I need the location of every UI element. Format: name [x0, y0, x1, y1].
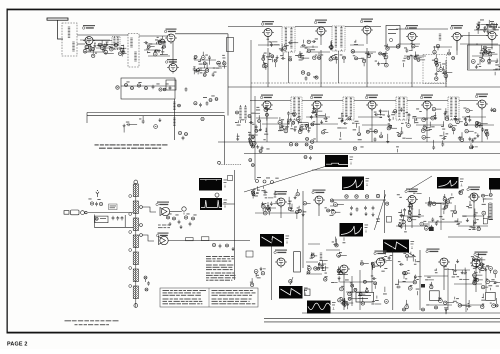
wire [354, 100, 396, 102]
tube V 2ND VIDEO IF 6CB6 [315, 27, 327, 37]
value label [415, 119, 417, 122]
resistor [492, 304, 496, 308]
resistor [486, 133, 489, 136]
wire [444, 194, 446, 197]
value label [432, 59, 435, 62]
value label [331, 208, 334, 211]
resistor [475, 278, 478, 281]
wire [409, 50, 413, 52]
resistor [254, 270, 258, 274]
IF transformer T4 [291, 97, 302, 120]
wire [477, 29, 479, 34]
value label [119, 47, 122, 50]
capacitor [492, 28, 496, 31]
capacitor [280, 49, 284, 52]
wire [444, 199, 446, 205]
value label [414, 58, 417, 61]
value label [430, 283, 433, 286]
value label [299, 121, 302, 124]
value label [375, 299, 379, 302]
wire [382, 53, 388, 55]
resistor [405, 305, 409, 309]
bus line upper [87, 112, 225, 114]
capacitor [105, 43, 108, 47]
wire [470, 110, 473, 112]
value label [391, 113, 395, 116]
wire [223, 203, 235, 205]
wire [407, 100, 448, 102]
value label [353, 128, 357, 131]
value label [479, 65, 481, 68]
capacitor [427, 204, 431, 207]
wire [481, 259, 485, 261]
wire [376, 265, 379, 267]
value label [397, 131, 399, 134]
resistor [493, 109, 496, 112]
wire [403, 63, 405, 67]
wire [204, 65, 206, 68]
wire [163, 41, 165, 45]
value label [330, 55, 332, 58]
value label [419, 110, 421, 113]
value label [279, 47, 283, 50]
value label [254, 195, 258, 198]
wire [358, 126, 360, 132]
coil [130, 38, 132, 47]
waveform scope W2 sync pulse [200, 198, 222, 210]
resistor [474, 278, 477, 281]
sound takeoff line [173, 99, 175, 140]
wire [385, 252, 387, 255]
resistor [205, 69, 208, 72]
value label [308, 127, 311, 130]
wire [175, 33, 228, 35]
wire [362, 297, 364, 301]
value label [461, 189, 464, 192]
wire [387, 134, 389, 140]
bus line y142 [218, 141, 500, 143]
value label [442, 203, 445, 206]
value label [288, 200, 291, 203]
resistor [159, 88, 162, 91]
wire vertical x234 [234, 170, 236, 280]
wire [143, 235, 155, 241]
wire [472, 229, 476, 231]
capacitor [324, 117, 328, 120]
notes table [160, 288, 258, 307]
IF transformer T5 [343, 97, 354, 120]
wire [482, 294, 484, 299]
resistor [448, 52, 451, 55]
resistor [226, 244, 229, 247]
value label [235, 121, 238, 124]
wire [299, 51, 301, 54]
ground [123, 124, 126, 128]
wire [487, 24, 489, 30]
value label [443, 69, 445, 72]
scope W8 vert saw annotation [286, 236, 290, 244]
wire [302, 122, 308, 124]
wire [77, 34, 128, 36]
value label [269, 52, 271, 55]
wire [268, 212, 270, 215]
scope W3 composite annotation [350, 157, 354, 165]
label SYNC PHASE INV [312, 190, 326, 194]
value label [446, 115, 449, 118]
value label [88, 198, 91, 201]
value label [345, 300, 348, 303]
wire [198, 70, 205, 72]
resistor [472, 258, 475, 261]
wire [255, 112, 260, 114]
value label [444, 306, 448, 309]
resistor [201, 56, 205, 60]
resistor [417, 58, 420, 61]
wire [162, 50, 164, 54]
value label [388, 122, 390, 125]
label VIDEO OUT 6AH6 [475, 94, 488, 98]
resistor [280, 127, 283, 130]
tube V2 mixer [165, 34, 177, 44]
resistor [343, 56, 346, 59]
value label [470, 226, 473, 229]
value label [450, 196, 454, 199]
cathode drop wire [366, 34, 368, 44]
value label [165, 83, 168, 86]
volume control [182, 207, 186, 215]
value label [265, 130, 267, 133]
wire [417, 57, 421, 59]
wire [121, 52, 123, 57]
wire [194, 60, 222, 68]
wire [310, 252, 312, 256]
wire [323, 260, 327, 262]
value label [193, 214, 196, 217]
wire [445, 200, 447, 205]
value label [376, 220, 379, 223]
wire [385, 59, 387, 63]
resistor [389, 125, 392, 128]
wire [472, 30, 498, 56]
wire [286, 119, 288, 125]
cathode drop wire [266, 109, 268, 142]
wire [355, 40, 357, 43]
label AUDIO AMP 6AV6 [156, 233, 168, 237]
value label [498, 26, 500, 29]
value label [499, 65, 500, 68]
wire [412, 216, 419, 218]
resistor [472, 195, 475, 198]
value label [481, 299, 485, 302]
value label [463, 107, 466, 110]
value label [299, 52, 302, 55]
resistor [403, 272, 406, 275]
terminal H [256, 180, 259, 183]
value label [175, 214, 178, 217]
value label [454, 273, 457, 276]
value label [205, 54, 208, 57]
resistor [372, 265, 375, 268]
resistor [119, 52, 122, 55]
wire [351, 288, 353, 292]
wire [296, 214, 298, 219]
value label [403, 252, 406, 255]
wire [406, 258, 408, 261]
value label [361, 57, 364, 60]
resistor [396, 45, 399, 48]
value label [462, 188, 464, 191]
ant input label box [109, 204, 117, 210]
capacitor [343, 122, 347, 125]
wire [496, 298, 498, 304]
waveform scope W10 vert ramp [279, 286, 303, 299]
value label [106, 41, 109, 44]
wire [372, 266, 374, 270]
wire [298, 206, 300, 209]
wire [271, 58, 273, 62]
wire [392, 117, 394, 120]
pointer diagonal to W7 [374, 194, 385, 230]
value label [392, 111, 395, 114]
resistor [305, 124, 308, 127]
AGC dashed enclosure [423, 55, 447, 84]
label 3RD VID IF 6CB6b [365, 95, 378, 99]
deflection yoke box [486, 292, 496, 300]
resistor [203, 73, 206, 76]
wire [496, 23, 498, 28]
wire [490, 270, 492, 273]
wire [86, 113, 88, 124]
cathode drop wire [456, 41, 458, 51]
label VERT SWEEP 6CM7 [374, 251, 387, 255]
resistor [460, 138, 463, 141]
resistor [153, 52, 157, 56]
capacitor [169, 86, 172, 90]
value label [407, 269, 409, 272]
ground [286, 125, 289, 129]
resistor [322, 131, 325, 134]
resistor [465, 130, 468, 133]
wire [401, 209, 403, 213]
resistor [337, 253, 341, 257]
label SYNC SEP [274, 191, 287, 195]
resistor [158, 40, 161, 43]
value label [312, 107, 315, 110]
wire [445, 78, 447, 80]
noise gate box [386, 216, 391, 222]
value label [475, 271, 478, 274]
value label [341, 299, 344, 302]
tuner RF section (dashed) [62, 23, 77, 56]
resistor [422, 118, 426, 122]
wire [483, 26, 485, 28]
wire [299, 125, 301, 130]
scope W2 sync pulse annotation [224, 200, 228, 208]
resistor [431, 116, 435, 120]
resistor [393, 110, 396, 113]
capacitor [219, 244, 222, 248]
resistor [252, 141, 256, 145]
value label [217, 62, 220, 65]
resistor [292, 121, 295, 124]
resistor [249, 159, 252, 162]
discriminator transformer [239, 105, 246, 123]
resistor [458, 304, 461, 307]
value label [251, 190, 254, 193]
socket pin [129, 231, 132, 234]
wire [478, 253, 480, 257]
tube V 3RD VIDEO IF 6CB6 [361, 26, 373, 36]
wire [364, 263, 369, 265]
resistor [488, 59, 491, 62]
value label [290, 207, 293, 210]
wire [461, 132, 463, 138]
value label [404, 57, 406, 60]
integrator network wire [332, 199, 386, 201]
resistor [267, 207, 270, 210]
resistor [209, 99, 212, 102]
wire [145, 279, 147, 282]
wire [447, 72, 452, 74]
value label [474, 137, 477, 140]
value label [488, 50, 491, 53]
ground [276, 55, 279, 59]
wire [303, 40, 305, 44]
wire [454, 297, 456, 300]
coil [134, 52, 136, 61]
wire [237, 133, 239, 137]
ground [169, 222, 172, 226]
value label [450, 125, 452, 128]
value label [444, 135, 447, 138]
value label [487, 24, 491, 27]
value label [168, 213, 171, 216]
resistor [212, 243, 215, 246]
wire [479, 279, 483, 281]
value label [289, 55, 292, 58]
resistor [255, 129, 258, 132]
resistor [249, 140, 252, 143]
capacitor [333, 243, 337, 246]
resistor [408, 218, 412, 222]
wire [415, 45, 418, 47]
value label [320, 259, 324, 262]
value label [472, 274, 474, 277]
to-discriminator note [158, 225, 170, 229]
label OSC 6J6 [165, 59, 177, 63]
capacitor [364, 206, 367, 210]
resistor [90, 202, 93, 205]
resistor [99, 202, 102, 205]
wire [486, 136, 488, 139]
resistor [412, 45, 415, 48]
tube V VIDEO OUT 6AH6 [476, 100, 488, 110]
capacitor [406, 48, 409, 52]
wire [445, 108, 447, 110]
tube V 3RD VID IF 6CB6b [366, 101, 378, 111]
resistor [374, 282, 377, 285]
value label [410, 54, 412, 57]
wire [284, 44, 286, 46]
pointer line to W9 [405, 251, 416, 257]
value label [464, 272, 467, 275]
resistor [178, 104, 181, 107]
resistor [338, 299, 341, 302]
wire [374, 285, 376, 289]
wire [265, 67, 267, 70]
wire [475, 146, 478, 148]
label 4.5MC TRAP [405, 25, 418, 29]
capacitor [89, 48, 92, 52]
capacitor [372, 206, 375, 210]
value label [111, 43, 114, 46]
value label [429, 128, 432, 131]
ground [158, 118, 161, 122]
value label [340, 269, 343, 272]
value label [455, 220, 458, 223]
value label [376, 218, 380, 221]
value label [193, 65, 195, 68]
value label [263, 138, 265, 141]
value label [490, 20, 494, 23]
value label [339, 138, 341, 141]
value label [256, 109, 260, 112]
wire [384, 287, 386, 292]
wire [255, 273, 257, 277]
capacitor [474, 213, 477, 217]
wire [469, 201, 471, 206]
resistor [363, 280, 366, 283]
interstage wiring row B [256, 117, 494, 125]
wire [447, 302, 454, 304]
value label [158, 40, 161, 43]
tube V SOUND IF 6AU6 [486, 32, 498, 42]
tube V agc keyer [406, 196, 418, 206]
value label [278, 129, 282, 132]
terminal J [263, 180, 266, 183]
value label [398, 211, 401, 214]
value label [480, 267, 482, 270]
resistor [185, 133, 188, 136]
scope W1 video out annotation [224, 180, 228, 188]
capacitor [249, 121, 253, 124]
value label [340, 54, 343, 57]
resistor [481, 305, 484, 308]
value label [457, 275, 460, 278]
value label [325, 275, 328, 278]
wire [434, 46, 436, 50]
wire [268, 109, 272, 111]
label VIDEO DET 6AL5 [420, 95, 433, 99]
ground [466, 218, 469, 222]
wire [414, 276, 416, 281]
resistor [459, 191, 463, 195]
wire y237 [448, 236, 500, 238]
wire [424, 223, 430, 225]
value label [155, 39, 158, 42]
wire [170, 211, 182, 213]
resistor [355, 195, 358, 198]
coil [68, 27, 70, 38]
wire vertical x255 [254, 96, 256, 180]
value label [442, 72, 445, 75]
capacitor [435, 221, 438, 225]
capacitor [312, 40, 316, 43]
capacitor [116, 216, 119, 220]
resistor [217, 61, 221, 65]
value label [268, 58, 271, 61]
value label [479, 126, 481, 129]
